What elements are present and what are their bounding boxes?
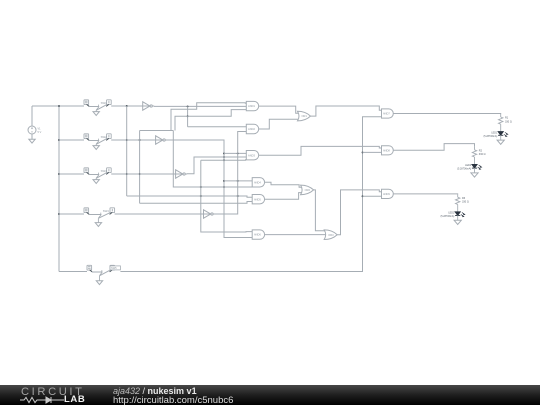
ground (below switch SW3) <box>96 175 98 178</box>
svg-text:SW5: SW5 <box>111 266 117 270</box>
wire X1 branch to AND2 input 1 <box>188 126 247 128</box>
wire AND2 out to OR1 input 2 <box>259 119 299 129</box>
svg-text:SW3: SW3 <box>101 169 108 173</box>
junction bus/row2 <box>58 139 60 141</box>
svg-text:AND4: AND4 <box>254 180 261 184</box>
logo diode <box>42 397 64 403</box>
wire top rail V1 to SW1 <box>32 105 84 107</box>
junction bus/row4 <box>58 213 60 215</box>
junction net A row2 <box>126 139 128 141</box>
wire OR3 out up to AND9 input 1 <box>337 190 381 235</box>
AND gate AND3 <box>246 151 258 160</box>
svg-text:AND7: AND7 <box>383 112 390 116</box>
junction X1 branch / AND1 in3 line <box>187 115 189 117</box>
switch SW2 (SPDT) <box>84 134 111 139</box>
AND gate AND2 <box>246 124 258 133</box>
svg-text:AND3: AND3 <box>248 153 255 157</box>
wire X1 out to AND1 input 2 <box>154 105 246 107</box>
svg-text:OR2: OR2 <box>305 188 311 192</box>
footer text <box>113 386 197 396</box>
junction net B row3 <box>139 173 141 175</box>
switch SW3 (SPDT) <box>84 168 111 173</box>
wire row4 bus to SW4 <box>59 213 84 215</box>
wire OR1 out to AND7 input 1 <box>311 106 382 116</box>
wire OR2 out down to OR3 input 1 <box>314 190 327 231</box>
ground (below switch SW2) <box>96 141 98 144</box>
wire net D top to AND3 input 3 <box>201 159 247 161</box>
wire AND8 out to R2 <box>393 144 474 151</box>
wire AND1 out to OR1 input 1 <box>259 106 299 113</box>
svg-text:AND5: AND5 <box>254 197 261 201</box>
wire net B bottom to AND5 input 2 <box>140 202 253 204</box>
wire net A to AND5 input 1 <box>127 196 253 197</box>
wire LED to ground <box>500 135 502 140</box>
wire X3 out up to AND3 input 2 <box>187 157 247 174</box>
svg-text:R1: R1 <box>505 117 509 120</box>
svg-text:OR3: OR3 <box>328 233 334 237</box>
wire AND1 input 3 feed <box>175 110 246 131</box>
ground (below switch SW4) <box>98 215 100 218</box>
inverter X1 <box>142 102 154 110</box>
resistor R2 (330 Ohm) <box>472 147 476 165</box>
junction X1 fanout <box>187 105 189 107</box>
wire AND5 out to OR2 input 2 <box>265 193 302 200</box>
svg-text:330 Ω: 330 Ω <box>505 120 512 123</box>
AND gate AND1 <box>246 101 258 110</box>
switch SW1 (SPDT) <box>84 100 111 105</box>
svg-text:AND2: AND2 <box>248 127 255 131</box>
wire X4 out up net F to AND2 input 2 <box>215 132 247 215</box>
junction row1 col A <box>126 105 128 107</box>
wire LED to ground <box>457 216 459 221</box>
inverter X2 <box>155 136 167 144</box>
junction net E / AND4 input 1 <box>223 180 225 182</box>
wire LED to ground <box>474 168 476 173</box>
logo resistor squiggle <box>20 397 42 402</box>
ground (below switch SW5) <box>99 273 101 276</box>
svg-text:R3: R3 <box>462 197 466 200</box>
wire X1 vertical branch <box>187 106 189 126</box>
wire left supply bus <box>58 106 60 272</box>
svg-text:330 Ω: 330 Ω <box>479 153 486 156</box>
wire net C vertical (x=173.3) to AND4 input 2 <box>173 131 253 188</box>
wire AND7 out to R1 <box>393 113 500 116</box>
wire SW4 to inverter X4 <box>115 213 204 215</box>
ground (V1) <box>29 139 35 143</box>
AND gate AND9 <box>382 189 394 198</box>
wire channel net D vertical to AND6 input 1 <box>201 160 252 232</box>
svg-text:(5.28706mA): (5.28706mA) <box>440 215 454 218</box>
junction net E / AND3 in3 crossing <box>223 159 225 161</box>
wire row5 bus corner to SW5 <box>59 271 87 273</box>
junction row5 net / AND8 input 2 <box>362 151 364 153</box>
AND gate AND5 <box>252 195 264 204</box>
ground (output LED1) <box>497 140 504 144</box>
wire SW2 to inverter X2 <box>111 139 155 141</box>
junction AND3 in1 / net F <box>237 152 239 154</box>
junction net A / net F <box>237 195 239 197</box>
wire SW3 to inverter X3 <box>111 173 175 175</box>
svg-text:AND6: AND6 <box>254 233 261 237</box>
svg-text:(5.28706mA): (5.28706mA) <box>483 135 497 138</box>
wire row5 net to AND9 input 2 <box>363 195 382 197</box>
wire row2 bus to SW2 <box>59 139 84 141</box>
LED LED2 <box>472 164 482 169</box>
junction row2 col B <box>139 139 141 141</box>
AND gate AND7 <box>382 109 394 118</box>
wire AND9 out to R3 <box>393 193 457 195</box>
junction net E / AND3 input 1 <box>223 152 225 154</box>
svg-text:(5.28706mA): (5.28706mA) <box>457 168 471 171</box>
wire net E to AND4 input 1 <box>224 180 253 182</box>
wire SW5 row5 to right AND gates <box>120 117 381 272</box>
ground (output LED2) <box>471 173 478 177</box>
LED LED1 <box>498 132 508 137</box>
switch SW4 (SPDT) <box>84 208 115 213</box>
LED LED3 <box>455 212 465 217</box>
ground (below switch SW1) <box>96 107 98 110</box>
wire X2 out channel vertical net E to AND6 input 2 <box>167 140 252 238</box>
switch SW5 (SPDT) <box>87 265 115 270</box>
AND gate AND6 <box>252 230 264 239</box>
junction row5 net / AND9 input 2 <box>362 195 364 197</box>
svg-text:OR1: OR1 <box>302 114 308 118</box>
junction net C / net D <box>200 186 202 188</box>
wire AND6 out to OR3 input 2 <box>265 234 327 236</box>
wire vertical net A (x=126.7) <box>126 106 128 196</box>
wire net E to AND3 input 1 <box>224 152 246 154</box>
wire AND4 out to OR2 input 1 <box>265 182 302 187</box>
ground (output LED3) <box>454 220 461 224</box>
footer bar <box>0 385 540 405</box>
svg-text:SW1: SW1 <box>101 101 108 105</box>
wire row3 bus to SW3 <box>59 173 84 175</box>
svg-text:5 V: 5 V <box>38 131 42 134</box>
svg-text:SW4: SW4 <box>103 209 110 213</box>
svg-text:330 Ω: 330 Ω <box>462 201 469 204</box>
inverter X3 <box>175 170 187 178</box>
svg-text:AND8: AND8 <box>383 148 390 152</box>
junction AND4 in1 / net F <box>237 180 239 182</box>
svg-text:R2: R2 <box>479 149 483 152</box>
voltage source V1 <box>28 106 36 139</box>
resistor R1 (330 Ohm) <box>499 114 503 132</box>
junction bus/row1 <box>58 105 60 107</box>
junction net A row3 <box>126 173 128 175</box>
junction bus/row3 <box>58 173 60 175</box>
wire SW1 to inverter X1 <box>111 105 143 107</box>
junction net A / net D <box>200 195 202 197</box>
CircuitLab logo <box>21 386 85 398</box>
OR gate OR3 <box>324 230 337 240</box>
inverter X4 <box>203 210 215 218</box>
wire vertical net B (x=139.6) <box>139 131 141 204</box>
wire net B top horizontal <box>140 130 174 132</box>
junction net C / net E <box>223 186 225 188</box>
OR gate OR2 <box>301 185 314 195</box>
svg-text:AND1: AND1 <box>248 104 255 108</box>
OR gate OR1 <box>298 111 311 121</box>
wire AND1 input 1 feed <box>171 103 246 131</box>
resistor R3 (330 Ohm) <box>456 194 460 212</box>
AND gate AND4 <box>252 178 264 187</box>
wire row5 net to AND8 input 2 <box>363 151 382 153</box>
wire AND3 out to AND8 input 1 <box>259 146 382 155</box>
AND gate AND8 <box>382 146 394 155</box>
svg-text:SW2: SW2 <box>101 135 108 139</box>
junction net E / AND3 in2 crossing <box>223 156 225 158</box>
svg-text:AND9: AND9 <box>383 192 390 196</box>
